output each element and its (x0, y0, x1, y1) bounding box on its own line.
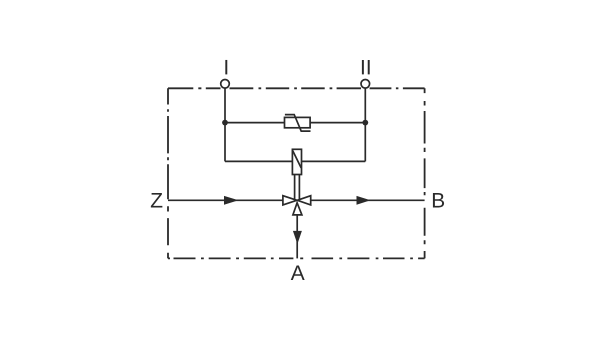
label B (right port) (433, 193, 444, 207)
label I (port I) (225, 60, 227, 74)
flow arrow Z (pointing right) (224, 196, 239, 205)
wire upper horizontal between junctions (225, 122, 365, 124)
label Z (left port) (151, 193, 163, 207)
enclosure dash-dot border left (167, 88, 169, 258)
wire from port I down to junction (224, 88, 226, 123)
orifice D2 body (292, 149, 301, 174)
valve stem double line right (298, 175, 300, 200)
valve right poppet triangle (297, 196, 310, 205)
valve left poppet triangle (283, 196, 297, 205)
flow arrow A (pointing down) (293, 231, 302, 244)
junction dot right (362, 120, 368, 126)
enclosure dash-dot border top (168, 87, 425, 89)
orifice D2 diagonal (293, 151, 302, 168)
wire Z line (168, 199, 283, 201)
valve bottom seat triangle (293, 203, 302, 215)
wire from port II down to junction (364, 88, 366, 123)
label II (port II) (362, 60, 370, 74)
wire B line (311, 199, 425, 201)
enclosure dash-dot border bottom (168, 257, 425, 259)
enclosure dash-dot border right (424, 88, 426, 258)
wire lower horizontal of loop (225, 160, 365, 162)
wire right loop vertical (364, 123, 366, 162)
flow arrow B (pointing right) (357, 196, 371, 205)
junction dot left (222, 120, 228, 126)
orifice D1 body (285, 117, 311, 127)
port I circle (221, 80, 230, 89)
orifice D1 diagonal with hooks (285, 115, 311, 132)
wire A line down (296, 215, 298, 259)
port II circle (361, 80, 370, 89)
label A (bottom port) (291, 266, 305, 280)
valve stem double line left (294, 175, 296, 200)
wire left loop vertical (224, 123, 226, 162)
